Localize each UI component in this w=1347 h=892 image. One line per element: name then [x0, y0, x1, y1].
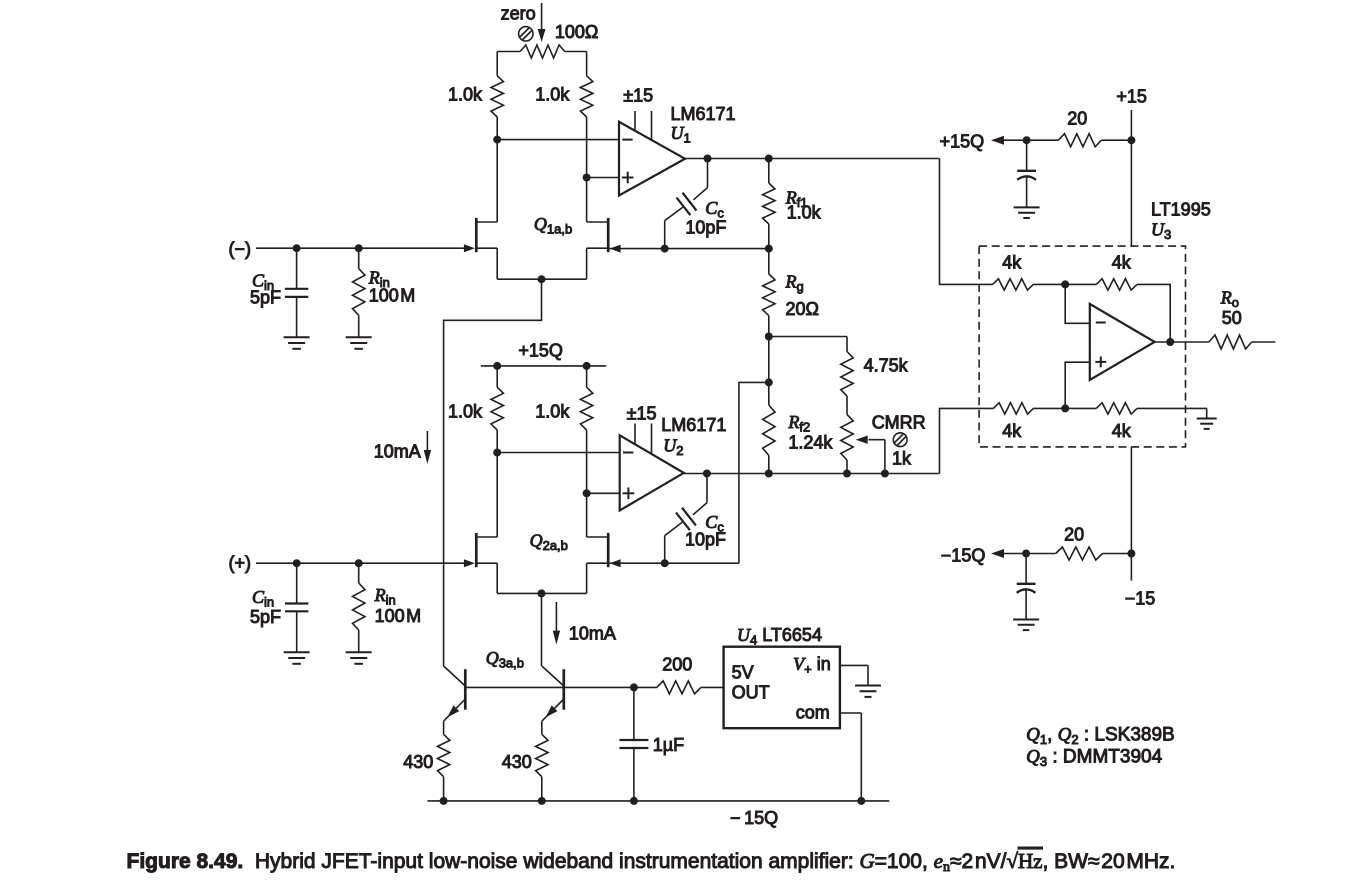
svg-text:200: 200 — [662, 655, 692, 675]
svg-text:−15: −15 — [1125, 589, 1156, 609]
svg-text:Q3 : DMMT3904: Q3 : DMMT3904 — [1026, 747, 1162, 770]
svg-text:U4 LT6654: U4 LT6654 — [737, 625, 822, 648]
svg-text:Rg: Rg — [785, 272, 804, 295]
svg-text:1.0k: 1.0k — [535, 85, 570, 105]
svg-text:+15: +15 — [1116, 87, 1147, 107]
svg-text:U2: U2 — [663, 436, 683, 459]
svg-text:Figure 8.49. Hybrid JFET-inpu: Figure 8.49. Hybrid JFET-input low-noise… — [127, 849, 1176, 875]
svg-text:Q2a,b: Q2a,b — [530, 531, 568, 554]
svg-text:10mA: 10mA — [374, 442, 421, 462]
svg-text:5V: 5V — [732, 663, 754, 683]
svg-text:100Ω: 100Ω — [555, 22, 599, 42]
svg-text:5pF: 5pF — [250, 607, 281, 627]
svg-text:50: 50 — [1222, 308, 1242, 328]
svg-text:OUT: OUT — [732, 683, 770, 703]
svg-text:10pF: 10pF — [685, 218, 726, 238]
svg-text:100 M: 100 M — [375, 606, 422, 626]
svg-text:Ro: Ro — [1220, 288, 1239, 311]
svg-text:LT1995: LT1995 — [1151, 200, 1211, 220]
svg-text:LM6171: LM6171 — [661, 415, 726, 435]
svg-text:1.0k: 1.0k — [448, 85, 483, 105]
svg-text:20: 20 — [1067, 109, 1087, 129]
svg-text:U3: U3 — [1151, 220, 1171, 243]
svg-text:1k: 1k — [892, 449, 912, 469]
svg-text:CMRR: CMRR — [872, 413, 926, 433]
svg-text:zero: zero — [501, 3, 536, 23]
svg-text:(+): (+) — [229, 553, 252, 573]
svg-text:20: 20 — [1064, 525, 1084, 545]
svg-text:U1: U1 — [671, 123, 691, 146]
svg-text:10mA: 10mA — [569, 624, 616, 644]
svg-text:+15Q: +15Q — [518, 340, 563, 360]
svg-text:Q1a,b: Q1a,b — [534, 214, 572, 237]
svg-text:(−): (−) — [229, 239, 252, 259]
svg-text:430: 430 — [403, 752, 433, 772]
svg-text:1.0k: 1.0k — [787, 203, 822, 223]
svg-text:4k: 4k — [1112, 421, 1132, 441]
svg-text:±15: ±15 — [623, 85, 653, 105]
svg-text:Q3a,b: Q3a,b — [486, 648, 524, 671]
svg-text:1.0k: 1.0k — [535, 402, 570, 422]
svg-text:20Ω: 20Ω — [786, 299, 819, 319]
svg-text:4k: 4k — [1002, 253, 1022, 273]
svg-text:− 15Q: − 15Q — [730, 808, 778, 828]
svg-text:−15Q: −15Q — [941, 546, 986, 566]
svg-text:1µF: 1µF — [653, 735, 684, 755]
svg-text:4k: 4k — [1112, 253, 1132, 273]
svg-text:LM6171: LM6171 — [671, 104, 736, 124]
svg-text:Rin: Rin — [374, 585, 396, 608]
svg-text:100 M: 100 M — [369, 286, 416, 306]
svg-text:com: com — [796, 703, 830, 723]
svg-text:+15Q: +15Q — [940, 132, 985, 152]
svg-text:5pF: 5pF — [250, 287, 281, 307]
svg-text:10pF: 10pF — [685, 530, 726, 550]
svg-text:Q1, Q2 : LSK389B: Q1, Q2 : LSK389B — [1026, 725, 1175, 748]
svg-text:±15: ±15 — [627, 404, 657, 424]
svg-text:V+ in: V+ in — [793, 654, 831, 677]
svg-text:4.75k: 4.75k — [864, 356, 909, 376]
svg-text:4k: 4k — [1002, 421, 1022, 441]
svg-text:1.24k: 1.24k — [788, 433, 833, 453]
svg-text:430: 430 — [502, 752, 532, 772]
svg-text:Rf2: Rf2 — [787, 412, 810, 435]
svg-text:1.0k: 1.0k — [448, 402, 483, 422]
